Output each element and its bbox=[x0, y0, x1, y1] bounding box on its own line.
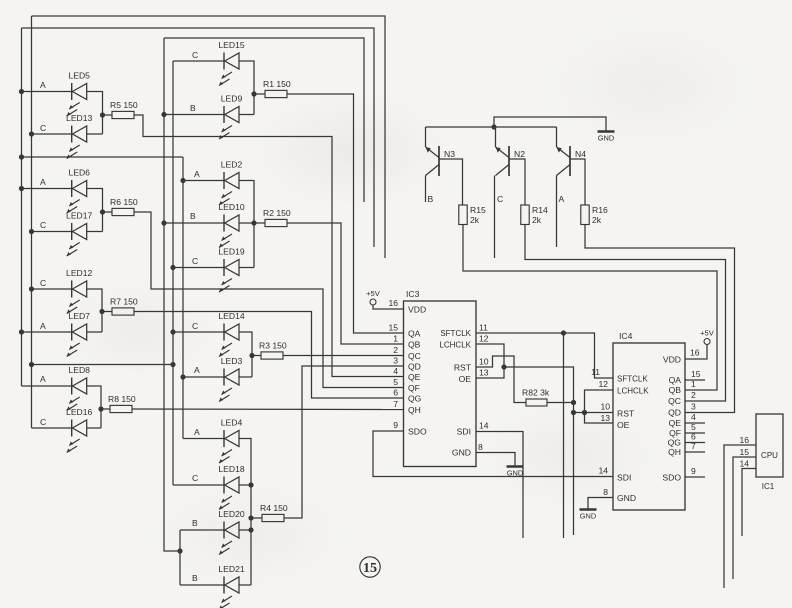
svg-text:QB: QB bbox=[669, 385, 682, 395]
wire LED5 to R5 bbox=[87, 92, 103, 135]
node R5 junction bbox=[100, 112, 105, 117]
node LCHCLK junction bbox=[501, 364, 506, 369]
svg-text:SFTCLK: SFTCLK bbox=[617, 375, 648, 384]
wire LED12 to R7 bbox=[87, 289, 102, 332]
node C-LED17 bbox=[29, 229, 34, 234]
wire LED13 cathode bbox=[32, 133, 72, 135]
svg-text:N3: N3 bbox=[444, 149, 455, 159]
wire IC3 SDO pin 9 to IC4 SDI pin 14 bbox=[373, 431, 613, 477]
svg-text:QD: QD bbox=[668, 408, 681, 418]
svg-text:A: A bbox=[40, 177, 46, 187]
svg-text:N2: N2 bbox=[514, 149, 525, 159]
svg-text:15: 15 bbox=[691, 369, 701, 379]
svg-text:14: 14 bbox=[479, 421, 489, 431]
svg-text:N4: N4 bbox=[575, 149, 586, 159]
wire to GND symbol bbox=[494, 117, 606, 131]
resistor R5 bbox=[112, 111, 134, 118]
ground bbox=[598, 130, 615, 132]
wire net-B top rail bbox=[164, 38, 364, 202]
figure number 15 bbox=[360, 557, 380, 577]
svg-text:2: 2 bbox=[393, 345, 398, 355]
svg-text:R15: R15 bbox=[470, 205, 486, 215]
node LED20 junction bbox=[248, 527, 253, 532]
svg-text:LED12: LED12 bbox=[66, 268, 92, 278]
wire LED21 anode bbox=[180, 584, 224, 586]
wire N4 base bbox=[570, 159, 585, 205]
wire LED20 anode bbox=[180, 529, 224, 531]
svg-text:QA: QA bbox=[669, 375, 682, 385]
wire net-A top rail bbox=[22, 28, 375, 247]
node B-LED9 bbox=[161, 112, 166, 117]
svg-text:14: 14 bbox=[739, 459, 749, 469]
wire LED9 anode bbox=[164, 114, 224, 116]
svg-text:B: B bbox=[190, 103, 196, 113]
svg-text:+5V: +5V bbox=[366, 289, 381, 298]
svg-text:LED17: LED17 bbox=[66, 211, 92, 221]
svg-text:LED6: LED6 bbox=[68, 168, 90, 178]
wire R5 input bbox=[103, 114, 113, 116]
svg-text:C: C bbox=[192, 321, 198, 331]
wire CPU pin 15 bbox=[733, 457, 756, 579]
svg-text:A: A bbox=[40, 80, 46, 90]
svg-text:13: 13 bbox=[479, 368, 489, 378]
svg-text:QH: QH bbox=[668, 447, 681, 457]
svg-text:LED15: LED15 bbox=[218, 40, 244, 50]
op-amp CPU IC1 body bbox=[756, 414, 783, 477]
svg-text:LED5: LED5 bbox=[68, 71, 90, 81]
svg-text:2k: 2k bbox=[470, 215, 480, 225]
svg-text:GND: GND bbox=[617, 493, 636, 503]
svg-text:R5 150: R5 150 bbox=[110, 100, 138, 110]
svg-text:GND: GND bbox=[452, 448, 471, 458]
LED LED14 bbox=[219, 324, 239, 357]
svg-text:LED14: LED14 bbox=[218, 311, 244, 321]
LED LED7 bbox=[67, 324, 87, 357]
svg-text:+5V: +5V bbox=[700, 329, 715, 338]
node B-LED10 bbox=[161, 220, 166, 225]
wire left A bus bbox=[21, 28, 23, 386]
wire R6 to IC3 QF bbox=[134, 212, 404, 388]
svg-text:16: 16 bbox=[388, 298, 398, 308]
svg-text:SDI: SDI bbox=[457, 427, 471, 437]
wire LED16 to R8 bbox=[87, 427, 101, 429]
svg-text:R7 150: R7 150 bbox=[110, 297, 138, 307]
wire LED4 to R4 bbox=[239, 439, 251, 586]
+5V supply bbox=[704, 339, 710, 345]
svg-text:SDO: SDO bbox=[662, 473, 681, 483]
svg-text:7: 7 bbox=[691, 441, 696, 451]
wire net-C top rail bbox=[32, 16, 386, 258]
svg-text:SFTCLK: SFTCLK bbox=[440, 329, 471, 338]
wire N3 base bbox=[439, 159, 463, 205]
LED LED15 bbox=[219, 53, 239, 86]
wire R3 input bbox=[252, 355, 261, 357]
wire LED10 anode bbox=[164, 222, 224, 224]
svg-text:10: 10 bbox=[479, 357, 489, 367]
node A jog junction bbox=[19, 154, 24, 159]
svg-text:IC3: IC3 bbox=[406, 289, 420, 299]
svg-text:QG: QG bbox=[668, 438, 682, 448]
svg-text:2k: 2k bbox=[532, 215, 542, 225]
svg-text:2k: 2k bbox=[592, 215, 602, 225]
wire LED18 to R4 bbox=[239, 484, 251, 486]
svg-text:LED7: LED7 bbox=[68, 311, 90, 321]
wire IC3 SFTCLK pin 11 to IC4 pin 11 bbox=[476, 333, 613, 378]
node R3 junction bbox=[249, 353, 254, 358]
wire LED3 anode bbox=[183, 376, 224, 378]
resistor R2 bbox=[265, 219, 287, 226]
svg-text:C: C bbox=[40, 417, 46, 427]
svg-text:1: 1 bbox=[393, 334, 398, 344]
wire LED7 to R7 bbox=[87, 331, 102, 333]
svg-text:CPU: CPU bbox=[761, 451, 778, 460]
node R4 junction bbox=[248, 515, 253, 520]
svg-text:6: 6 bbox=[691, 432, 696, 442]
svg-text:4: 4 bbox=[691, 412, 696, 422]
wire IC3 LCHCLK pin 12 tie pin 13 bbox=[476, 344, 504, 378]
wire R1 input bbox=[254, 93, 265, 95]
op-amp IC4 shift register body bbox=[613, 343, 685, 510]
svg-text:R6 150: R6 150 bbox=[110, 197, 138, 207]
wire LED15 to R1 bbox=[239, 61, 254, 115]
node R8 junction bbox=[98, 406, 103, 411]
wire LED2 to R2 bbox=[239, 181, 254, 268]
wire LED15 cathode bbox=[173, 60, 224, 62]
node C jog junction right bbox=[170, 362, 175, 367]
svg-text:R1 150: R1 150 bbox=[263, 79, 291, 89]
LED LED3 bbox=[219, 369, 239, 402]
wire left C bus bbox=[31, 16, 33, 428]
svg-text:8: 8 bbox=[478, 442, 483, 452]
svg-text:5: 5 bbox=[393, 377, 398, 387]
wire LED12 cathode bbox=[32, 288, 72, 290]
wire IC4 QA stub bbox=[685, 379, 705, 381]
node C-LED19 bbox=[170, 265, 175, 270]
svg-text:B: B bbox=[190, 211, 196, 221]
svg-text:C: C bbox=[192, 256, 198, 266]
wire mid C bus bbox=[172, 61, 174, 485]
wire LED16 cathode bbox=[32, 427, 72, 429]
svg-text:16: 16 bbox=[690, 348, 700, 358]
svg-text:A: A bbox=[40, 321, 46, 331]
svg-text:2: 2 bbox=[691, 390, 696, 400]
wire IC3 RST pin 10 staircase bbox=[476, 356, 526, 403]
node C-LED14 bbox=[170, 329, 175, 334]
LED LED18 bbox=[219, 477, 239, 510]
svg-text:VDD: VDD bbox=[663, 355, 681, 365]
svg-text:C: C bbox=[40, 220, 46, 230]
wire LED9 to R1 bbox=[239, 114, 254, 116]
wire N2 base bbox=[509, 159, 525, 205]
LED LED9 bbox=[219, 106, 239, 139]
LED LED8 bbox=[67, 378, 87, 411]
svg-text:LCHCLK: LCHCLK bbox=[617, 387, 649, 396]
node R82 junction bbox=[571, 400, 576, 405]
svg-text:15: 15 bbox=[739, 447, 749, 457]
svg-text:15: 15 bbox=[388, 323, 398, 333]
wire R4 input bbox=[251, 517, 262, 519]
svg-text:LED13: LED13 bbox=[66, 113, 92, 123]
wire IC4 QE stub bbox=[685, 422, 705, 424]
wire LED18 cathode bbox=[173, 484, 224, 486]
svg-text:9: 9 bbox=[691, 466, 696, 476]
svg-text:GND: GND bbox=[598, 134, 614, 143]
wire CPU pin 14 bbox=[742, 469, 756, 537]
svg-text:VDD: VDD bbox=[408, 305, 426, 315]
wire SFTCLK down to CPU bbox=[563, 333, 565, 538]
wire emitter rail bbox=[426, 126, 557, 128]
svg-text:LED3: LED3 bbox=[221, 356, 243, 366]
wire IC4 QF stub bbox=[685, 432, 705, 434]
transistor N3 bbox=[426, 127, 440, 176]
svg-text:10: 10 bbox=[600, 402, 610, 412]
svg-text:QD: QD bbox=[408, 362, 421, 372]
wire R2 input bbox=[254, 222, 265, 224]
svg-text:8: 8 bbox=[603, 487, 608, 497]
svg-text:LCHCLK: LCHCLK bbox=[439, 341, 471, 350]
svg-text:7: 7 bbox=[393, 399, 398, 409]
LED LED17 bbox=[67, 223, 87, 256]
wire R4 to IC3 QD bbox=[284, 366, 404, 518]
wire IC4 QG stub bbox=[685, 442, 705, 444]
svg-text:1: 1 bbox=[691, 379, 696, 389]
wire LED10 to R2 bbox=[239, 222, 254, 224]
wire LED6 to R6 bbox=[87, 189, 103, 232]
wire R7 to IC3 QG bbox=[134, 312, 404, 399]
svg-text:SDI: SDI bbox=[617, 473, 631, 483]
resistor R14 bbox=[521, 205, 529, 225]
wire LED21 end bbox=[239, 584, 251, 586]
LED LED21 bbox=[219, 577, 239, 608]
svg-text:OE: OE bbox=[617, 420, 630, 430]
wire R16 to IC4 QD bbox=[585, 225, 735, 413]
wire IC4 GND pin 8 bbox=[588, 498, 613, 510]
wire IC3 GND pin 8 bbox=[476, 453, 515, 467]
wire to IC4 RST bbox=[574, 412, 614, 414]
wire LED3 to R3 bbox=[239, 376, 252, 378]
wire N3 collector to B rail bbox=[425, 176, 427, 203]
wire LED6 anode bbox=[22, 188, 72, 190]
svg-text:QF: QF bbox=[669, 428, 681, 438]
svg-text:QB: QB bbox=[408, 340, 421, 350]
wire A bus jog bbox=[22, 156, 184, 158]
node SFTCLK junction bbox=[561, 330, 566, 335]
wire R1 to IC3 QA bbox=[287, 94, 404, 333]
wire R2 to IC3 QB bbox=[287, 223, 404, 344]
wire IC4 QH stub bbox=[685, 451, 705, 453]
wire IC3 SDI pin 14 bbox=[476, 432, 523, 539]
wire R8 to IC3 QH bbox=[132, 408, 404, 411]
svg-text:C: C bbox=[497, 194, 503, 204]
wire N2 collector to C rail bbox=[494, 176, 496, 259]
svg-text:A: A bbox=[40, 374, 46, 384]
svg-text:QE: QE bbox=[408, 372, 421, 382]
svg-text:QE: QE bbox=[669, 418, 682, 428]
wire LED7 anode bbox=[22, 331, 72, 333]
LED LED13 bbox=[67, 126, 87, 159]
wire IC4 VDD pin 16 bbox=[685, 345, 707, 360]
svg-text:3: 3 bbox=[691, 402, 696, 412]
svg-text:RST: RST bbox=[454, 363, 472, 373]
ground bbox=[507, 465, 524, 467]
svg-text:LED8: LED8 bbox=[68, 365, 90, 375]
node C-LED13 bbox=[29, 131, 34, 136]
svg-text:QH: QH bbox=[408, 405, 421, 415]
svg-text:QG: QG bbox=[408, 394, 422, 404]
wire mid B bus bbox=[164, 38, 180, 551]
wire IC3 VDD pin 16 bbox=[373, 305, 404, 309]
wire R15 to IC4 QB bbox=[463, 225, 717, 391]
svg-text:C: C bbox=[192, 50, 198, 60]
resistor R3 bbox=[261, 352, 283, 359]
svg-text:RST: RST bbox=[617, 409, 635, 419]
svg-text:LED16: LED16 bbox=[66, 407, 92, 417]
LED LED2 bbox=[219, 172, 239, 205]
resistor R7 bbox=[112, 308, 134, 315]
svg-text:14: 14 bbox=[598, 466, 608, 476]
wire CPU pin 16 bbox=[724, 445, 756, 588]
LED LED10 bbox=[219, 215, 239, 248]
svg-text:LED10: LED10 bbox=[218, 202, 244, 212]
svg-text:QA: QA bbox=[408, 329, 421, 339]
svg-text:A: A bbox=[559, 194, 565, 204]
wire LED8 anode bbox=[22, 385, 72, 387]
node B sub-bus junction bbox=[177, 548, 182, 553]
svg-text:B: B bbox=[192, 573, 198, 583]
svg-text:C: C bbox=[40, 123, 46, 133]
svg-text:A: A bbox=[194, 169, 200, 179]
svg-text:13: 13 bbox=[600, 413, 610, 423]
LED LED6 bbox=[67, 180, 87, 213]
svg-text:LED2: LED2 bbox=[221, 160, 243, 170]
node emitter rail junction bbox=[491, 124, 496, 129]
svg-text:12: 12 bbox=[479, 334, 489, 344]
svg-text:LED9: LED9 bbox=[221, 94, 243, 104]
wire C bus jog bbox=[32, 364, 174, 366]
svg-text:11: 11 bbox=[479, 323, 488, 333]
svg-text:LED20: LED20 bbox=[218, 509, 244, 519]
svg-text:11: 11 bbox=[591, 367, 600, 377]
op-amp IC3 shift register body bbox=[404, 301, 477, 467]
node R2 junction bbox=[251, 220, 256, 225]
svg-text:C: C bbox=[192, 473, 198, 483]
svg-text:C: C bbox=[40, 278, 46, 288]
svg-text:R4 150: R4 150 bbox=[260, 503, 288, 513]
wire B sub-bus bbox=[179, 530, 181, 585]
wire LED8 to R8 bbox=[87, 386, 101, 428]
LED LED4 bbox=[219, 430, 239, 463]
svg-text:B: B bbox=[192, 518, 198, 528]
wire mid A bus bbox=[182, 157, 184, 439]
+5V supply bbox=[370, 299, 376, 305]
wire LCHCLK to IC4 bbox=[504, 367, 574, 535]
svg-text:R14: R14 bbox=[532, 205, 548, 215]
node R1 junction bbox=[251, 91, 256, 96]
node A-LED2 bbox=[180, 178, 185, 183]
svg-text:SDO: SDO bbox=[408, 427, 427, 437]
wire IC4 pin12 tie pin13 bbox=[585, 390, 614, 423]
resistor R16 bbox=[581, 205, 589, 225]
wire R82 output bbox=[547, 402, 574, 404]
svg-text:LED19: LED19 bbox=[218, 247, 244, 257]
svg-text:IC4: IC4 bbox=[619, 331, 633, 341]
wire R6 input bbox=[103, 211, 113, 213]
node C-LED12 bbox=[29, 286, 34, 291]
LED LED12 bbox=[67, 281, 87, 314]
svg-text:GND: GND bbox=[580, 512, 596, 521]
node A-LED6 bbox=[19, 186, 24, 191]
wire R3 to IC3 QC bbox=[283, 355, 404, 357]
wire IC4 SDO stub bbox=[685, 476, 705, 478]
svg-text:R2 150: R2 150 bbox=[263, 208, 291, 218]
svg-text:IC1: IC1 bbox=[762, 482, 775, 491]
wire LED2 anode bbox=[183, 180, 224, 182]
wire LED5 anode bbox=[22, 91, 72, 93]
svg-text:4: 4 bbox=[393, 366, 398, 376]
svg-text:QC: QC bbox=[668, 396, 681, 406]
svg-text:5: 5 bbox=[691, 422, 696, 432]
node LCHCLK-RST junction bbox=[571, 410, 576, 415]
LED LED20 bbox=[219, 522, 239, 555]
wire LED17 to R6 bbox=[87, 231, 103, 233]
node A-LED5 bbox=[19, 89, 24, 94]
svg-text:R3 150: R3 150 bbox=[259, 341, 287, 351]
transistor N2 bbox=[496, 127, 510, 176]
node A-LED3 bbox=[180, 374, 185, 379]
svg-text:15: 15 bbox=[363, 561, 377, 576]
resistor R1 bbox=[265, 90, 287, 97]
svg-text:16: 16 bbox=[739, 435, 749, 445]
node C jog junction left bbox=[29, 362, 34, 367]
node A-LED7 bbox=[19, 329, 24, 334]
resistor R4 bbox=[262, 514, 284, 521]
svg-text:LED21: LED21 bbox=[218, 564, 244, 574]
svg-text:OE: OE bbox=[459, 374, 472, 384]
svg-text:LED4: LED4 bbox=[221, 418, 243, 428]
svg-text:R8 150: R8 150 bbox=[108, 394, 136, 404]
svg-text:12: 12 bbox=[598, 379, 608, 389]
node LED18 junction bbox=[248, 482, 253, 487]
svg-text:R82 3k: R82 3k bbox=[522, 388, 550, 398]
node R7 junction bbox=[99, 309, 104, 314]
LED LED16 bbox=[67, 420, 87, 453]
wire R7 input bbox=[102, 311, 112, 313]
resistor R6 bbox=[112, 208, 134, 215]
wire R8 input bbox=[101, 408, 110, 410]
wire LED14 cathode bbox=[173, 331, 224, 333]
wire LED19 to R2 bbox=[239, 267, 254, 269]
svg-text:A: A bbox=[194, 427, 200, 437]
wire R5 to IC3 QE bbox=[134, 115, 404, 377]
resistor R15 bbox=[459, 205, 467, 225]
ground bbox=[580, 508, 597, 510]
svg-text:R16: R16 bbox=[592, 205, 608, 215]
node R6 junction bbox=[100, 209, 105, 214]
transistor N4 bbox=[557, 127, 571, 176]
svg-text:QF: QF bbox=[408, 383, 420, 393]
svg-text:LED18: LED18 bbox=[218, 464, 244, 474]
node IC4 pin12 tie junction bbox=[582, 410, 587, 415]
wire LED4 anode bbox=[183, 438, 224, 440]
wire LED20 to R4 bbox=[239, 529, 251, 531]
wire N4 collector to A rail bbox=[556, 176, 558, 248]
svg-text:B: B bbox=[428, 194, 434, 204]
wire LED13 to R5 bbox=[87, 133, 103, 135]
LED LED19 bbox=[219, 259, 239, 292]
wire R14 to IC4 QC bbox=[525, 225, 726, 402]
wire LED19 cathode bbox=[173, 267, 224, 269]
svg-text:3: 3 bbox=[393, 356, 398, 366]
